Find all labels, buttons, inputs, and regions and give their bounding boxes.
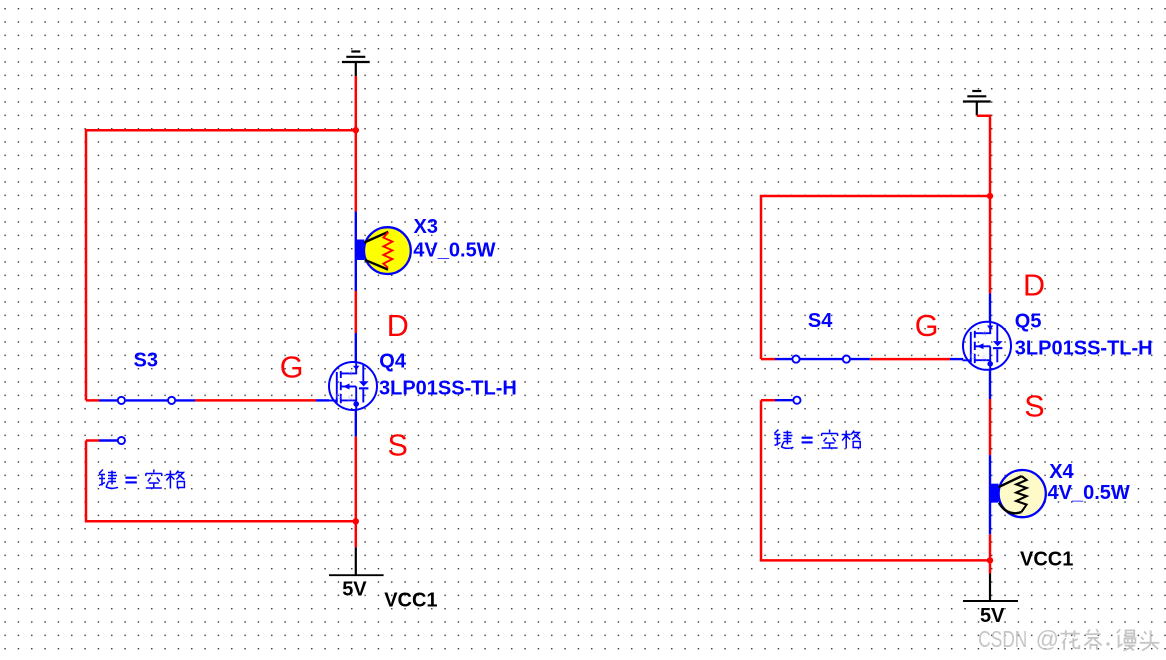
svg-text:5V: 5V [342, 579, 367, 601]
svg-text:S: S [388, 429, 408, 463]
svg-text:4V_0.5W: 4V_0.5W [413, 240, 495, 262]
svg-text:X4: X4 [1049, 461, 1074, 483]
svg-text:S4: S4 [808, 310, 833, 332]
svg-text:3LP01SS-TL-H: 3LP01SS-TL-H [379, 377, 517, 399]
svg-text:CSDN: CSDN [978, 626, 1027, 652]
svg-text:Q5: Q5 [1015, 311, 1042, 333]
svg-text:D: D [387, 309, 409, 343]
svg-text:4V_0.5W: 4V_0.5W [1048, 482, 1130, 504]
svg-text:S: S [1024, 390, 1044, 424]
svg-text:VCC1: VCC1 [384, 590, 437, 612]
svg-text:@: @ [1036, 626, 1059, 652]
svg-text:VCC1: VCC1 [1020, 549, 1073, 571]
svg-text:X3: X3 [414, 216, 438, 238]
svg-text:G: G [915, 309, 939, 343]
svg-text:Q4: Q4 [379, 351, 407, 373]
svg-text:5V: 5V [980, 605, 1005, 627]
svg-text:S3: S3 [134, 350, 158, 372]
svg-text:3LP01SS-TL-H: 3LP01SS-TL-H [1015, 338, 1153, 360]
svg-text:D: D [1023, 268, 1045, 302]
svg-text:G: G [280, 351, 304, 385]
